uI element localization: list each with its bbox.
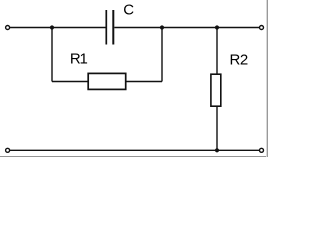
wire bottom	[10, 149, 259, 151]
wire R2 top lead	[216, 28, 218, 75]
border bottom	[0, 156, 268, 158]
wire branch down to R1	[51, 28, 53, 82]
terminal T3 (bottom-left)	[6, 148, 10, 152]
svg-text:C: C	[123, 2, 134, 19]
node B (junction where R1 rejoins)	[160, 25, 164, 29]
terminal T1 (input, top-left)	[6, 26, 10, 30]
svg-text:R2: R2	[230, 52, 248, 69]
svg-text:R1: R1	[70, 51, 88, 68]
node A (junction top-left branch)	[50, 25, 54, 29]
wire into R1 left	[52, 81, 89, 83]
wire R2 bottom lead	[216, 106, 218, 150]
node D (junction on bottom wire)	[215, 148, 219, 152]
resistor R2	[211, 74, 221, 106]
border right	[266, 0, 268, 157]
terminal T2 (output, top-right)	[260, 26, 264, 30]
wire out of R1 right	[126, 81, 162, 83]
node C (junction to R2)	[215, 25, 219, 29]
resistor R1	[88, 73, 126, 89]
capacitor C plates	[106, 10, 113, 45]
wire branch up from R1	[161, 28, 163, 82]
terminal T4 (bottom-right)	[260, 148, 264, 152]
wire top-left segment	[10, 27, 106, 29]
wire top-right segment	[114, 27, 259, 29]
